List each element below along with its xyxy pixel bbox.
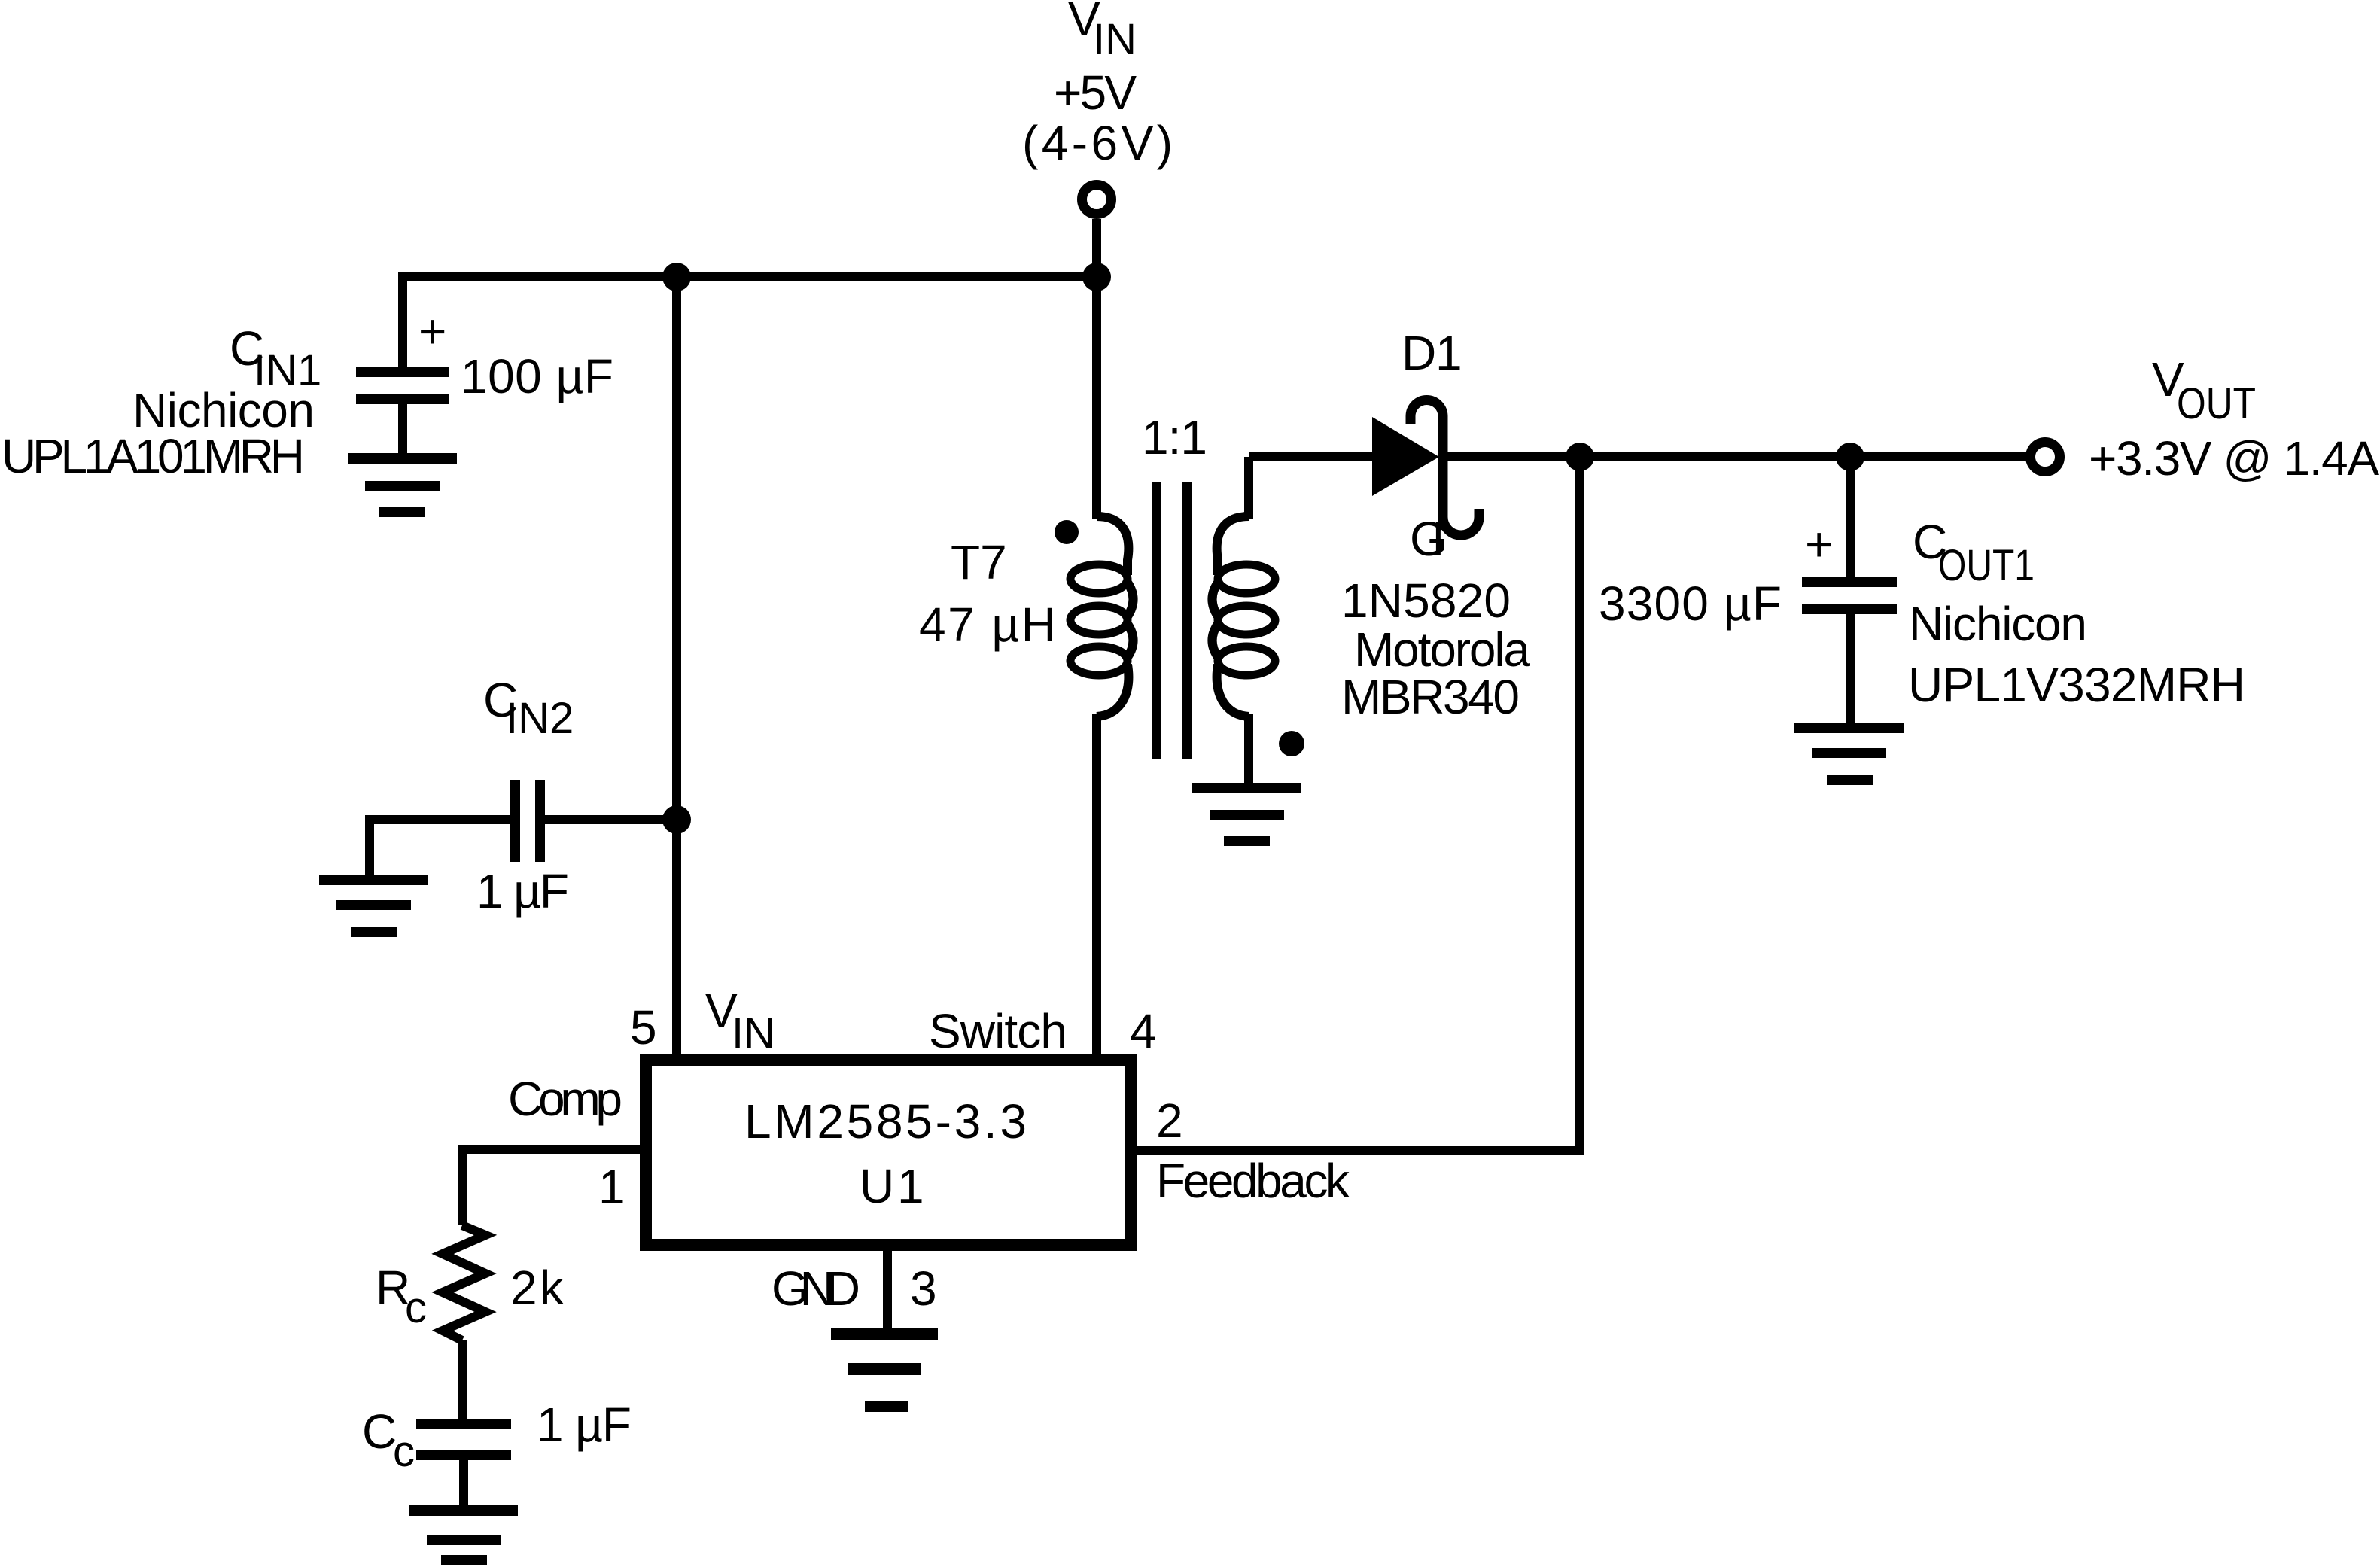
svg-text:OUT: OUT	[2177, 379, 2256, 428]
svg-text:+3.3V @ 1.4A: +3.3V @ 1.4A	[2089, 431, 2379, 485]
wire diode anode	[1249, 452, 1374, 461]
svg-text:UPL1V332MRH: UPL1V332MRH	[1908, 658, 2245, 712]
node feedback junction dot	[1566, 443, 1594, 471]
wire RC to CC	[458, 1340, 467, 1419]
wire VIN vertical to pin 5	[672, 277, 681, 1054]
svg-text:3: 3	[910, 1261, 937, 1316]
svg-text:OUT1: OUT1	[1938, 541, 2035, 590]
CIN2 label	[483, 673, 574, 743]
svg-text:1:1: 1:1	[1142, 410, 1207, 464]
svg-text:UPL1A101MRH: UPL1A101MRH	[2, 429, 305, 483]
transformer T7 primary winding	[1070, 516, 1134, 717]
svg-text:(4-6V): (4-6V)	[1022, 116, 1173, 170]
transformer core	[1152, 482, 1192, 759]
D1 part labels	[1341, 512, 1530, 724]
svg-text:Nichicon: Nichicon	[1909, 597, 2087, 651]
U1 pin VIN label	[705, 984, 775, 1058]
COUT1 label	[1908, 515, 2245, 712]
capacitor CIN1	[356, 367, 449, 453]
CC label	[362, 1404, 415, 1476]
ground CIN1	[348, 453, 457, 517]
op-amp U1 regulator box LM2585-3.3	[646, 1060, 1131, 1245]
svg-text:Comp: Comp	[508, 1072, 622, 1126]
ground COUT1	[1794, 723, 1904, 785]
svg-text:IN: IN	[1093, 15, 1137, 64]
svg-text:1 µF: 1 µF	[537, 1398, 632, 1452]
capacitor CIN2	[370, 780, 677, 862]
svg-text:T7: T7	[951, 535, 1007, 589]
svg-text:47 µH: 47 µH	[919, 598, 1056, 652]
svg-text:1: 1	[897, 1159, 924, 1213]
svg-text:100 µF: 100 µF	[461, 349, 613, 403]
svg-text:MBR340: MBR340	[1341, 670, 1520, 724]
svg-text:C: C	[362, 1404, 397, 1459]
svg-text:1 µF: 1 µF	[476, 864, 569, 918]
wire CIN1 top lead	[398, 272, 407, 367]
wire secondary bottom lead	[1244, 714, 1253, 783]
svg-text:5: 5	[630, 1000, 657, 1054]
svg-text:c: c	[405, 1283, 427, 1332]
svg-text:+5V: +5V	[1054, 65, 1137, 120]
wire secondary top lead	[1244, 457, 1253, 519]
U1 part label	[744, 1094, 1027, 1213]
svg-text:Motorola: Motorola	[1354, 622, 1530, 677]
svg-text:c: c	[393, 1427, 415, 1476]
wire feedback to pin 2	[1133, 1146, 1584, 1155]
wire terminal stub	[1092, 219, 1101, 277]
transformer secondary phase dot	[1279, 731, 1304, 756]
node VIN label	[1022, 0, 1173, 170]
node junction dot B	[1082, 263, 1111, 291]
wire primary feed from rail	[1092, 277, 1101, 519]
wire feedback riser	[1575, 457, 1584, 1150]
node COUT1 junction dot	[1836, 443, 1864, 471]
svg-text:Switch: Switch	[929, 1004, 1067, 1058]
wire top rail	[403, 272, 1097, 281]
ground CIN2	[319, 875, 428, 937]
svg-text:1: 1	[1435, 326, 1462, 380]
VIN input terminal	[1082, 185, 1112, 215]
svg-text:IN2: IN2	[506, 694, 574, 743]
svg-text:4: 4	[1130, 1004, 1157, 1058]
resistor RC	[443, 1225, 485, 1340]
node junction dot CIN2	[662, 805, 691, 834]
diode D1	[1372, 400, 1479, 536]
wire primary to pin 4	[1092, 714, 1101, 1054]
svg-text:Feedback: Feedback	[1156, 1154, 1350, 1208]
svg-text:IN: IN	[732, 1009, 775, 1058]
wire U1 GND pin	[883, 1249, 892, 1328]
svg-text:LM2585-3.3: LM2585-3.3	[744, 1094, 1027, 1149]
CIN1 label	[2, 321, 321, 483]
svg-text:D: D	[1402, 326, 1436, 380]
ground T7 secondary	[1192, 783, 1301, 846]
svg-text:U: U	[860, 1159, 894, 1213]
svg-text:2: 2	[1156, 1094, 1183, 1148]
capacitor CC	[416, 1419, 511, 1505]
svg-text:+: +	[1805, 517, 1833, 571]
svg-text:3300 µF: 3300 µF	[1599, 577, 1782, 631]
wire Comp pin 1	[462, 1145, 640, 1225]
transformer T7 secondary winding	[1213, 516, 1276, 717]
node VOUT label	[2089, 352, 2379, 485]
transformer primary phase dot	[1055, 520, 1079, 544]
svg-text:1: 1	[598, 1160, 625, 1214]
svg-text:GND: GND	[772, 1261, 860, 1316]
svg-text:+: +	[418, 304, 446, 358]
ground U1	[831, 1328, 938, 1412]
svg-text:1N5820: 1N5820	[1341, 574, 1511, 628]
capacitor COUT1	[1802, 577, 1897, 723]
ground CC	[409, 1505, 518, 1565]
wire COUT1 top lead	[1846, 457, 1855, 577]
VOUT output terminal	[2031, 443, 2060, 472]
wire diode cathode to output	[1443, 452, 2026, 461]
wire CIN2 ground lead	[365, 815, 374, 875]
RC label	[376, 1261, 427, 1332]
svg-text:I: I	[1432, 512, 1445, 566]
node junction dot A	[662, 263, 691, 291]
